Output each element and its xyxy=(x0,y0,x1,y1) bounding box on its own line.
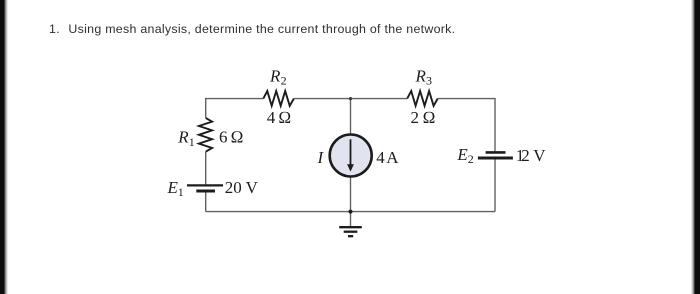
svg-text:E: E xyxy=(456,145,468,164)
svg-text:R: R xyxy=(415,66,427,85)
svg-text:1: 1 xyxy=(189,135,195,149)
svg-text:Ω: Ω xyxy=(423,108,436,127)
svg-text:Ω: Ω xyxy=(231,128,244,147)
svg-text:2: 2 xyxy=(281,73,287,87)
svg-text:E: E xyxy=(167,178,179,197)
svg-text:A: A xyxy=(386,148,399,167)
svg-text:6: 6 xyxy=(219,128,228,147)
svg-text:V: V xyxy=(533,146,546,165)
svg-text:R: R xyxy=(177,128,189,147)
svg-text:4: 4 xyxy=(376,148,385,167)
svg-text:V: V xyxy=(246,178,259,197)
svg-text:1: 1 xyxy=(178,185,184,199)
svg-text:I: I xyxy=(317,148,325,167)
svg-text:2: 2 xyxy=(521,146,530,165)
svg-text:4: 4 xyxy=(267,108,276,127)
svg-text:2: 2 xyxy=(411,108,420,127)
svg-text:R: R xyxy=(269,66,281,85)
svg-text:20: 20 xyxy=(225,178,242,197)
svg-text:2: 2 xyxy=(468,152,474,166)
svg-text:Ω: Ω xyxy=(278,108,291,127)
svg-text:3: 3 xyxy=(426,73,432,87)
